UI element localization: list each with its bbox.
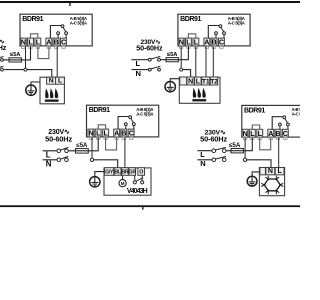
svg-text:A-C 5(3)A: A-C 5(3)A bbox=[136, 111, 153, 116]
svg-text:N: N bbox=[188, 78, 193, 85]
wire A to boiler T1 D2 bbox=[205, 46, 207, 77]
switch N pole 2 D2 bbox=[158, 68, 161, 71]
svg-text:M: M bbox=[121, 181, 125, 186]
svg-text:B: B bbox=[275, 129, 280, 138]
terminal B4 box D4 bbox=[275, 129, 281, 137]
wire switch to fuse D4 bbox=[226, 150, 231, 152]
terminal L1 box D2 bbox=[186, 38, 192, 46]
relay contact C D2 bbox=[223, 32, 226, 35]
link wire L2 to A D3 bbox=[106, 137, 117, 150]
link bridge L-L D2 bbox=[188, 34, 195, 38]
relay blade D1 bbox=[63, 27, 66, 31]
terminal L1 clamp stub D1 bbox=[29, 46, 32, 49]
wire B to appliance L D4 bbox=[278, 138, 280, 168]
relay common wire from A D4 bbox=[272, 117, 284, 130]
svg-text:BDR91: BDR91 bbox=[22, 16, 43, 23]
top page border line bbox=[0, 1, 300, 3]
terminal C5 clamp stub D4 bbox=[284, 137, 287, 140]
relay pivot D1 bbox=[61, 25, 64, 28]
terminal N0 box D4 bbox=[242, 129, 248, 137]
valve terminal BR box D3 bbox=[122, 168, 129, 176]
appliance terminal N box D4 bbox=[266, 168, 275, 175]
top border tick mark bbox=[69, 3, 70, 6]
relay pivot D4 bbox=[283, 116, 286, 119]
terminal A3 box D4 bbox=[268, 129, 274, 137]
relay common wire from A D3 bbox=[118, 117, 130, 130]
bottom border tick mark bbox=[142, 207, 143, 210]
svg-text:T2: T2 bbox=[210, 78, 218, 85]
relay common wire from A D2 bbox=[208, 26, 220, 39]
link wire L2 to A D4 bbox=[260, 138, 271, 150]
burner flame icon D1 bbox=[45, 100, 59, 102]
svg-text:N: N bbox=[89, 129, 94, 138]
terminal N0 clamp stub D1 bbox=[22, 46, 25, 49]
switch N blade D3 bbox=[60, 156, 68, 159]
svg-text:N: N bbox=[268, 168, 273, 175]
relay blade D2 bbox=[221, 27, 224, 31]
switch L pole 2 D4 bbox=[222, 149, 226, 153]
switch L blade D4 bbox=[215, 147, 226, 150]
valve motor M D3 bbox=[122, 175, 124, 179]
hexagon actuator symbol D4 bbox=[264, 179, 280, 191]
terminal L2 clamp stub D2 bbox=[194, 46, 197, 49]
terminal C5 box D4 bbox=[282, 129, 288, 137]
earth symbol D2 bbox=[165, 82, 175, 92]
relay contact B D2 bbox=[215, 32, 218, 35]
switch N blade D4 bbox=[215, 156, 226, 159]
mains L wire D4 bbox=[197, 150, 212, 152]
switch N pole 1 D2 bbox=[148, 68, 151, 71]
terminal A3 box D1 bbox=[46, 38, 52, 46]
terminal N0 box D3 bbox=[88, 129, 94, 137]
svg-text:A-C 5(3)A: A-C 5(3)A bbox=[292, 112, 300, 117]
wire N terminal down to junction D4 bbox=[244, 138, 246, 159]
earth symbol D1 bbox=[26, 85, 36, 95]
svg-text:A-C 5(3)A: A-C 5(3)A bbox=[70, 20, 87, 25]
earth wire D1 bbox=[31, 82, 40, 85]
fuse D2 bbox=[166, 58, 178, 62]
earth wire D2 bbox=[170, 79, 179, 82]
BDR91 relay box D2 bbox=[178, 14, 250, 46]
junction N D2 bbox=[180, 68, 183, 71]
BDR91 relay box D1 bbox=[20, 14, 92, 46]
valve box V4043H D3 bbox=[104, 168, 151, 195]
svg-text:≤5A: ≤5A bbox=[167, 52, 178, 58]
switch N pole 2 D1 bbox=[1, 68, 4, 71]
switch L pole 1 D4 bbox=[212, 149, 216, 153]
relay contact C D4 bbox=[287, 123, 290, 126]
terminal L2 clamp stub D3 bbox=[104, 137, 107, 140]
svg-text:C: C bbox=[219, 38, 224, 47]
terminal B4 clamp stub D4 bbox=[276, 137, 279, 140]
wire B to valve BR D3 bbox=[124, 137, 126, 168]
svg-text:BDR91: BDR91 bbox=[244, 107, 265, 114]
relay common wire from A D1 bbox=[50, 26, 62, 39]
terminal C5 box D2 bbox=[219, 38, 225, 46]
mains N wire D3 bbox=[43, 159, 57, 161]
terminal A3 box D2 bbox=[204, 38, 210, 46]
svg-text:≤5A: ≤5A bbox=[229, 142, 241, 149]
svg-text:L: L bbox=[58, 78, 62, 85]
svg-text:50-60Hz: 50-60Hz bbox=[0, 43, 7, 52]
appliance terminal L box D4 bbox=[275, 168, 284, 175]
wire N terminal down to junction D3 bbox=[91, 137, 93, 158]
svg-text:N: N bbox=[179, 38, 184, 47]
switch L blade D1 bbox=[0, 57, 4, 60]
svg-text:BDR91: BDR91 bbox=[180, 16, 201, 23]
BDR91 relay box D3 bbox=[87, 105, 159, 137]
terminal C5 box D1 bbox=[61, 38, 67, 46]
appliance empty terminal box D4 bbox=[260, 168, 266, 175]
switch L pole 2 D2 bbox=[158, 58, 161, 61]
svg-text:C: C bbox=[129, 129, 134, 138]
terminal C5 clamp stub D3 bbox=[130, 137, 133, 140]
svg-text:50-60Hz: 50-60Hz bbox=[200, 134, 227, 143]
terminal N0 clamp stub D4 bbox=[243, 137, 246, 140]
switch N pole 1 D3 bbox=[57, 158, 61, 162]
wire fuse to L terminal D3 bbox=[88, 137, 98, 151]
switch L pole 2 D1 bbox=[1, 59, 4, 62]
terminal C5 box D3 bbox=[128, 129, 134, 137]
svg-text:L: L bbox=[200, 150, 205, 159]
relay blade D4 bbox=[285, 119, 288, 123]
terminal L1 box D4 bbox=[249, 129, 255, 137]
switch N pole 2 D3 bbox=[65, 158, 69, 162]
switch N blade D2 bbox=[151, 66, 160, 69]
svg-text:N: N bbox=[200, 159, 205, 168]
relay pivot D2 bbox=[219, 25, 222, 28]
svg-text:BDR91: BDR91 bbox=[89, 107, 110, 114]
svg-text:C: C bbox=[283, 129, 288, 138]
svg-text:A: A bbox=[46, 38, 51, 47]
earth wire D3 bbox=[95, 172, 104, 177]
terminal A3 clamp stub D4 bbox=[269, 137, 272, 140]
earth wire D4 bbox=[252, 172, 259, 176]
svg-text:≤5A: ≤5A bbox=[76, 143, 88, 149]
wire fuse to L terminal D4 bbox=[244, 138, 253, 151]
svg-text:N: N bbox=[46, 160, 52, 169]
wire N feed to boiler D1 bbox=[4, 70, 52, 78]
wire N terminal down to junction D2 bbox=[180, 46, 182, 68]
valve terminal BL box D3 bbox=[114, 168, 121, 176]
svg-text:B: B bbox=[54, 38, 59, 47]
boiler empty terminal box D2 bbox=[180, 77, 187, 85]
relay contact B D1 bbox=[57, 32, 60, 35]
wire switch to fuse D2 bbox=[160, 59, 166, 61]
junction N D1 bbox=[24, 68, 27, 71]
mains N wire D2 bbox=[132, 69, 149, 71]
appliance box D4 bbox=[259, 168, 284, 196]
terminal A3 box D3 bbox=[114, 129, 120, 137]
link bridge L-L D1 bbox=[31, 34, 38, 38]
terminal L1 clamp stub D3 bbox=[97, 137, 100, 140]
terminal B4 box D1 bbox=[53, 38, 59, 46]
svg-text:A: A bbox=[204, 38, 209, 47]
svg-text:B: B bbox=[121, 129, 126, 138]
switch L pole 2 D3 bbox=[65, 149, 69, 153]
fuse D3 bbox=[76, 149, 89, 154]
wire B to boiler T2 D2 bbox=[212, 46, 214, 77]
svg-text:O: O bbox=[139, 170, 143, 176]
wire N feed to boiler D2 bbox=[183, 70, 191, 78]
valve terminal O box D3 bbox=[138, 168, 145, 176]
svg-text:G/Y: G/Y bbox=[105, 170, 114, 176]
terminal L2 clamp stub D4 bbox=[258, 137, 261, 140]
relay blade D3 bbox=[131, 118, 134, 122]
BDR91 relay box D4 bbox=[242, 105, 314, 137]
switch N pole 2 D4 bbox=[222, 158, 226, 162]
svg-text:T1: T1 bbox=[202, 78, 210, 85]
svg-text:C: C bbox=[61, 38, 66, 47]
switch N blade D1 bbox=[0, 66, 4, 69]
terminal A3 clamp stub D3 bbox=[115, 137, 118, 140]
relay pivot D3 bbox=[129, 116, 132, 119]
switch L pole 1 D3 bbox=[57, 149, 61, 153]
switch L blade D2 bbox=[151, 56, 160, 59]
svg-text:N: N bbox=[243, 129, 248, 138]
wire N feed to valve BL D3 bbox=[94, 160, 118, 168]
relay contact C D3 bbox=[132, 123, 135, 126]
terminal L1 clamp stub D2 bbox=[187, 46, 190, 49]
switch L pole 1 D2 bbox=[148, 58, 151, 61]
boiler terminal L box D1 bbox=[56, 77, 65, 84]
valve end switch D3 bbox=[134, 175, 136, 180]
terminal L2 box D3 bbox=[103, 129, 109, 137]
earth symbol D4 bbox=[247, 176, 257, 186]
junction N D4 bbox=[243, 158, 246, 161]
boiler box D1 bbox=[40, 77, 64, 104]
terminal L1 box D1 bbox=[28, 38, 34, 46]
wire N feed to appliance D4 bbox=[247, 160, 271, 168]
terminal C5 clamp stub D1 bbox=[62, 46, 65, 49]
relay contact C D1 bbox=[65, 32, 68, 35]
fuse D1 bbox=[9, 58, 21, 62]
boiler terminal L box D2 bbox=[195, 77, 202, 85]
svg-text:B: B bbox=[212, 38, 217, 47]
link wire L2 to A D1 bbox=[38, 46, 49, 58]
terminal L1 box D3 bbox=[95, 129, 101, 137]
terminal L2 box D4 bbox=[257, 129, 263, 137]
svg-text:V4043H: V4043H bbox=[127, 188, 148, 195]
fuse D4 bbox=[231, 149, 244, 153]
boiler terminal T2 box D2 bbox=[210, 77, 217, 85]
mains L wire D3 bbox=[43, 150, 57, 152]
terminal B4 clamp stub D2 bbox=[212, 46, 215, 49]
svg-text:50-60Hz: 50-60Hz bbox=[136, 44, 163, 53]
terminal B4 clamp stub D1 bbox=[54, 46, 57, 49]
terminal N0 clamp stub D2 bbox=[180, 46, 183, 49]
link bridge L-L D3 bbox=[98, 125, 105, 129]
junction N D3 bbox=[90, 158, 93, 161]
switch N pole 1 D4 bbox=[212, 158, 216, 162]
wire fuse to L terminal D1 bbox=[21, 46, 30, 60]
terminal L2 box D2 bbox=[193, 38, 199, 46]
relay contact B D4 bbox=[279, 123, 282, 126]
terminal B4 box D2 bbox=[211, 38, 217, 46]
burner flame icon D2 bbox=[192, 99, 206, 101]
terminal L2 clamp stub D1 bbox=[36, 46, 39, 49]
bottom page border line bbox=[0, 205, 300, 207]
svg-text:A: A bbox=[114, 129, 119, 138]
valve terminal G/Y box D3 bbox=[105, 168, 114, 176]
boiler terminal N box D1 bbox=[47, 77, 56, 84]
switch L blade D3 bbox=[60, 147, 68, 150]
wire switch to fuse D3 bbox=[68, 150, 75, 152]
terminal L2 box D1 bbox=[35, 38, 41, 46]
mains L wire D2 bbox=[132, 59, 149, 61]
svg-text:N: N bbox=[49, 78, 54, 85]
wire B to boiler L D1 bbox=[56, 46, 58, 77]
valve terminal GR box D3 bbox=[129, 168, 136, 176]
terminal B4 box D3 bbox=[121, 129, 127, 137]
terminal N0 box D2 bbox=[178, 38, 184, 46]
boiler box D2 bbox=[179, 77, 220, 103]
svg-text:L: L bbox=[46, 151, 51, 160]
svg-text:L: L bbox=[136, 59, 141, 68]
terminal A3 clamp stub D1 bbox=[47, 46, 50, 49]
terminal A3 clamp stub D2 bbox=[205, 46, 208, 49]
svg-text:≤5A: ≤5A bbox=[10, 52, 21, 58]
wire switch to fuse D1 bbox=[4, 59, 10, 61]
mains N wire D4 bbox=[197, 159, 212, 161]
terminal N0 clamp stub D3 bbox=[89, 137, 92, 140]
svg-text:GR: GR bbox=[129, 170, 137, 176]
boiler terminal T1 box D2 bbox=[202, 77, 210, 85]
relay contact B D3 bbox=[124, 123, 127, 126]
svg-text:A-C 5(3)A: A-C 5(3)A bbox=[228, 20, 245, 25]
terminal B4 clamp stub D3 bbox=[122, 137, 125, 140]
wire N terminal down to junction D1 bbox=[25, 46, 27, 68]
terminal L1 clamp stub D4 bbox=[251, 137, 254, 140]
svg-text:A: A bbox=[268, 129, 273, 138]
svg-text:50-60Hz: 50-60Hz bbox=[45, 134, 72, 143]
svg-text:N: N bbox=[136, 69, 141, 78]
terminal C5 clamp stub D2 bbox=[220, 46, 223, 49]
boiler terminal N box D2 bbox=[187, 77, 194, 85]
terminal N0 box D1 bbox=[20, 38, 26, 46]
wire fuse to L terminal D2 bbox=[178, 46, 188, 59]
wire L2 to boiler L D2 bbox=[195, 46, 197, 77]
svg-text:N: N bbox=[21, 38, 26, 47]
earth symbol D3 bbox=[90, 177, 100, 187]
link bridge L-L D4 bbox=[252, 125, 259, 129]
